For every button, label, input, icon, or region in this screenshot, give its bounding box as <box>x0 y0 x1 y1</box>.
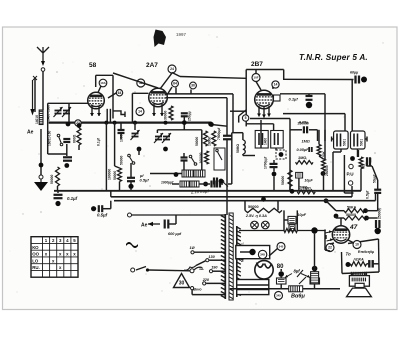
svg-text:ΟΟ: ΟΟ <box>32 252 39 257</box>
bus divider resistor <box>289 286 303 292</box>
resistor osc lower <box>205 151 209 164</box>
bus junction v1 <box>104 121 108 125</box>
svg-text:1400: 1400 <box>264 138 268 145</box>
mid cluster wires <box>131 123 139 184</box>
svg-text:47: 47 <box>349 224 358 231</box>
switch box dot <box>219 179 224 184</box>
svg-text:1400+1600: 1400+1600 <box>47 105 51 121</box>
PU box <box>344 150 358 193</box>
svg-text:30000: 30000 <box>164 110 168 120</box>
2A7 can box <box>132 93 148 122</box>
svg-text:50000: 50000 <box>120 155 124 165</box>
warning triangle 30 <box>174 274 190 288</box>
bus B+ long <box>54 190 361 192</box>
2B7 left diagonal <box>230 110 246 123</box>
svg-text:345: 345 <box>260 253 265 257</box>
1MO pu resistor <box>359 157 363 169</box>
svg-text:P.U: P.U <box>347 172 355 177</box>
60uuf coupling cap <box>356 76 368 84</box>
2B7 cathode arrow 3 <box>267 106 271 117</box>
svg-text:130: 130 <box>208 255 215 259</box>
selector blade <box>194 267 202 270</box>
tap circle 190 <box>209 270 212 273</box>
tap squiggle <box>184 266 196 271</box>
svg-text:Ae: Ae <box>27 130 34 136</box>
trimmer cap A1 <box>54 107 63 117</box>
avc vert res 1 <box>317 145 321 157</box>
tap circle Βινο <box>191 287 194 290</box>
IF can bottom wires <box>333 149 358 191</box>
pin 5 on 2B7 <box>242 115 248 121</box>
selector pivot <box>190 269 194 273</box>
tube 47 <box>332 226 349 243</box>
top coupling cap o <box>376 220 379 228</box>
pin 14 on 2B7 <box>272 81 279 88</box>
svg-text:10000: 10000 <box>208 137 212 146</box>
gang junction <box>66 122 71 127</box>
mains top wire <box>132 214 226 216</box>
svg-text:0.5µf: 0.5µf <box>140 178 150 183</box>
bias wires <box>314 234 316 272</box>
mains terminal <box>131 268 135 272</box>
bus link to IF2 <box>211 125 227 127</box>
10uF boxed cap c <box>289 225 295 231</box>
svg-text:10000: 10000 <box>120 132 124 142</box>
vertical from 60uuf to IF can <box>351 80 353 132</box>
svg-text:345: 345 <box>276 294 281 298</box>
50000 coupling res 2 <box>344 216 367 220</box>
res end dot r1 <box>363 208 368 213</box>
pin 10F on 2B7 <box>252 74 260 82</box>
grid coupling 58 to 2A7 <box>113 73 158 88</box>
circled pin 10 <box>353 241 361 249</box>
2B7 can box <box>246 70 284 127</box>
heater bus dot <box>311 227 317 233</box>
trimmer 10000 <box>131 130 140 140</box>
padder cap A <box>63 139 70 142</box>
pad bus wires <box>172 183 232 185</box>
avc vert res 2 <box>322 159 326 171</box>
pad dot <box>203 182 208 187</box>
header logo mark <box>154 30 167 48</box>
svg-text:80: 80 <box>277 264 284 270</box>
pin 14 on 2A7 <box>136 108 144 116</box>
tap wire 130 <box>196 260 225 265</box>
pad cap <box>212 181 215 188</box>
coupling cap 250000 <box>304 126 307 133</box>
2A7 cathode arrow 1 <box>152 104 156 116</box>
svg-text:10µF: 10µF <box>297 213 306 217</box>
hv dot <box>249 249 255 255</box>
svg-text:14: 14 <box>274 83 278 87</box>
1MO resistor h <box>296 161 314 165</box>
x mark on coil <box>33 76 37 80</box>
line terminal circle <box>128 213 132 217</box>
PU jack circle 1 <box>349 164 353 168</box>
antenna symbol <box>37 47 49 71</box>
HV winding box top <box>236 246 270 259</box>
1700 cap <box>270 164 278 167</box>
pad block 1 <box>180 181 189 187</box>
avc to bus wires <box>299 130 325 191</box>
osc coil <box>243 140 245 154</box>
svg-text:16051-160: 16051-160 <box>48 131 52 146</box>
svg-text:1ΜΩ: 1ΜΩ <box>299 186 307 190</box>
hv dot wire <box>240 251 250 253</box>
svg-text:0.05µF: 0.05µF <box>297 148 310 152</box>
0.1uf cap left <box>54 195 63 198</box>
circled 345a <box>277 243 285 251</box>
58 cathode arrow 2 <box>97 106 101 116</box>
svg-text:30: 30 <box>179 281 185 287</box>
bottom cap pair <box>214 178 217 185</box>
400ohm resistor <box>284 229 297 233</box>
vert wires under 58 <box>106 123 114 191</box>
50000 mid stub <box>289 187 291 191</box>
bus junction near 2A7 <box>182 120 187 125</box>
47 output box <box>342 239 380 274</box>
tube 58 <box>88 92 105 109</box>
10uF link wires <box>284 210 297 230</box>
svg-text:7500µµf: 7500µµf <box>217 127 221 140</box>
ground ant <box>34 179 48 191</box>
svg-text:LΟ: LΟ <box>32 258 39 263</box>
8uf arrows <box>285 274 310 278</box>
svg-text:14016: 14016 <box>35 115 39 124</box>
res下 wire <box>57 191 59 193</box>
junction dot <box>39 163 44 168</box>
filter cap 2 <box>310 271 320 284</box>
pad cap 2 <box>217 181 220 188</box>
svg-text:1700µµf: 1700µµf <box>264 156 268 169</box>
svg-text:10F: 10F <box>253 76 258 80</box>
rectifier 80 <box>255 261 273 279</box>
osc section wires <box>157 125 201 175</box>
svg-text:1997: 1997 <box>176 32 187 37</box>
band switch B <box>128 154 135 164</box>
band switch D <box>221 180 228 186</box>
output transformer <box>349 272 369 286</box>
bus3 corner <box>375 194 377 201</box>
svg-text:0.1µf: 0.1µf <box>67 196 78 201</box>
hv box lines <box>237 285 269 290</box>
svg-text:250000: 250000 <box>298 122 309 126</box>
1700 to bus <box>273 177 275 191</box>
tap wire 220 <box>206 282 225 284</box>
IF3 trimmer box 1 <box>255 131 268 149</box>
50uuf cap <box>367 157 370 166</box>
pin stems <box>176 88 191 94</box>
mains wire to selector <box>149 269 190 272</box>
band table <box>31 237 78 278</box>
svg-text:ΜΩ: ΜΩ <box>362 163 366 169</box>
cap121 stem <box>120 123 122 139</box>
svg-text:220: 220 <box>202 278 210 282</box>
heater bus <box>239 230 325 232</box>
small dot box <box>276 150 286 159</box>
can legs <box>107 109 110 123</box>
svg-text:RU.: RU. <box>32 265 40 270</box>
output cap <box>369 260 372 268</box>
resistor 30000 <box>169 106 173 120</box>
1MO inline resistor <box>297 190 315 194</box>
cap 0.05 <box>309 147 312 152</box>
circled pin 22 <box>326 244 334 252</box>
svg-text:Βινο: Βινο <box>193 287 202 291</box>
svg-text:50000: 50000 <box>248 205 259 209</box>
bus2 stub <box>351 193 353 197</box>
IF3 wires <box>261 120 276 172</box>
svg-text:1ΜΩ,: 1ΜΩ, <box>298 156 307 160</box>
svg-text:64: 64 <box>118 91 122 95</box>
cluster bottom wires <box>48 144 67 156</box>
2B7 grid wires <box>256 70 274 91</box>
tap wire 190 <box>213 270 225 272</box>
IF can feed wires <box>325 94 345 160</box>
osc top dot <box>208 122 213 127</box>
filter cap 1 <box>277 271 287 284</box>
tube 2B7 <box>255 90 274 109</box>
svg-text:µf: µf <box>139 174 144 178</box>
2B7 plate tab <box>274 95 281 101</box>
pin 64 on 2A7 <box>172 80 179 87</box>
0.5uf cap right <box>374 190 381 193</box>
svg-text:2B7: 2B7 <box>251 61 263 68</box>
osc cap <box>181 158 188 161</box>
cap down wire <box>183 116 185 129</box>
600ohm resistor <box>77 128 81 145</box>
svg-text:50000: 50000 <box>195 137 199 146</box>
tap circle 130 <box>206 259 209 262</box>
resistor 15000 osc <box>212 131 216 146</box>
speaker wires <box>352 273 366 276</box>
svg-text:10A: 10A <box>100 81 106 85</box>
58 grid cap wire <box>98 86 117 98</box>
tap block resistor 1 <box>182 170 193 177</box>
svg-text:0.5µf: 0.5µf <box>97 213 108 218</box>
wire cap to down <box>308 94 310 95</box>
svg-text:Σ.εππυµf: Σ.εππυµf <box>190 189 210 195</box>
pin 23 left <box>75 120 81 126</box>
osc trimmer 1 <box>154 133 163 143</box>
tap bus dot <box>174 172 179 177</box>
svg-text:ΚΟ: ΚΟ <box>32 245 39 250</box>
svg-text:250000: 250000 <box>325 165 329 176</box>
bus junction v3 <box>133 121 137 125</box>
pin 64 on 58 <box>116 90 122 96</box>
50000 coupling res 1 <box>344 209 365 213</box>
svg-text:345: 345 <box>279 245 284 249</box>
IF can 1 <box>334 131 349 149</box>
junction under 58 <box>137 147 142 152</box>
pin 10A on 58 <box>99 79 107 87</box>
bias dot <box>312 266 318 272</box>
svg-text:Επιθεηθμ: Επιθεηθμ <box>358 250 374 254</box>
2A7 plate wire 2 <box>166 97 227 99</box>
speaker <box>347 283 372 296</box>
trimmer cap A2 <box>62 107 71 117</box>
PU top dot <box>350 156 355 161</box>
bus dot left <box>290 189 295 194</box>
tap wire 110 <box>194 251 225 253</box>
svg-text:60µµ: 60µµ <box>350 71 358 75</box>
svg-text:1ΜΩ: 1ΜΩ <box>302 140 310 144</box>
svg-text:1Δ: 1Δ <box>199 267 204 271</box>
wire coil to junction <box>40 129 42 176</box>
svg-text:100000: 100000 <box>199 152 203 163</box>
0.5uf cap <box>99 205 102 212</box>
svg-text:22: 22 <box>328 246 332 250</box>
0.1uf dot <box>55 201 60 206</box>
50000 heater resistor <box>245 208 282 212</box>
tap wire bottom <box>192 290 225 295</box>
svg-text:2A7: 2A7 <box>146 62 158 69</box>
2B7 out wire <box>280 94 345 114</box>
cap bottom mid <box>127 178 135 181</box>
top wire 2B7 to antenna cap <box>283 78 354 80</box>
can outer ticks <box>332 137 367 142</box>
tube 2A7 <box>149 88 168 107</box>
svg-text:10µF: 10µF <box>304 179 313 183</box>
svg-text:50000: 50000 <box>113 171 117 180</box>
47 input arrows <box>325 230 333 241</box>
2A7 cathode arrow 2 <box>160 104 164 116</box>
2A7 plate wire 1 <box>165 94 233 133</box>
svg-text:5001: 5001 <box>359 139 363 146</box>
B minus bus <box>230 288 340 290</box>
IF can 2 <box>351 131 366 149</box>
bias resistor <box>311 272 319 284</box>
600 res top dot <box>77 123 82 128</box>
svg-text:50ΜΩ: 50ΜΩ <box>236 144 240 153</box>
svg-text:0.1µf: 0.1µf <box>97 137 101 146</box>
twisted pair <box>251 221 269 229</box>
svg-text:24: 24 <box>170 67 174 71</box>
band switch A <box>57 134 63 146</box>
tuning box left <box>48 103 88 154</box>
IF2 vertical pair <box>227 98 232 215</box>
50000 resistor mid <box>288 170 292 187</box>
cap stems <box>281 269 314 289</box>
svg-text:T.N.R. Super 5 A.: T.N.R. Super 5 A. <box>299 53 368 62</box>
1700 dot <box>272 172 277 177</box>
svg-text:600Ω: 600Ω <box>73 134 77 143</box>
circled 2A5 <box>258 250 266 258</box>
svg-text:14: 14 <box>138 110 142 114</box>
bus2 left corner <box>110 191 112 197</box>
circled 345b <box>275 292 283 300</box>
band switch C <box>189 155 197 165</box>
600uuf wire up <box>169 215 177 224</box>
osc junction <box>163 147 168 152</box>
mains switch <box>136 267 149 272</box>
coil wires <box>232 133 255 156</box>
svg-text:Το: Το <box>346 252 352 257</box>
2A7 grid top wire <box>160 73 172 95</box>
cap out wire <box>102 201 111 209</box>
resistor 100000 osc <box>204 131 208 146</box>
pad block 2 <box>190 181 199 187</box>
svg-text:0.5µf: 0.5µf <box>365 190 369 199</box>
antenna coil L <box>39 110 43 125</box>
600ohm wires <box>78 124 80 150</box>
svg-text:250µµ: 250µµ <box>188 111 192 121</box>
58 can box <box>96 75 113 118</box>
IF3 trimmer box 2 <box>271 131 284 149</box>
tap block resistor 2 <box>194 170 205 177</box>
cap dot left <box>91 206 96 211</box>
Ae arrow symbol <box>148 222 160 226</box>
avc junction dot <box>321 171 326 176</box>
cap at 121 <box>118 130 125 133</box>
bus 2 long <box>111 196 352 198</box>
svg-text:50000: 50000 <box>346 213 356 217</box>
pin 24 on 2A7 <box>168 65 176 73</box>
10uF boxed cap b <box>288 216 296 223</box>
res end dot r2 <box>364 216 369 221</box>
50000 resistor under58 <box>118 168 122 182</box>
terminal dot o <box>375 228 381 234</box>
svg-text:50000: 50000 <box>281 176 285 185</box>
pin B on 2A7 <box>137 79 145 87</box>
svg-text:64: 64 <box>173 82 177 86</box>
power transformer T1 <box>221 213 241 300</box>
coupling wires <box>326 201 378 218</box>
Ae arrow <box>30 80 34 116</box>
top grid wire to 2B7 <box>172 73 246 79</box>
bus 3 long <box>114 200 376 202</box>
svg-text:8µf: 8µf <box>294 269 301 274</box>
svg-text:100000: 100000 <box>108 169 112 180</box>
left col output wires <box>325 230 330 252</box>
345 wire <box>269 249 278 257</box>
output dot <box>346 262 351 267</box>
2B7 cathode arrow 1 <box>257 106 261 117</box>
switch box mid <box>214 148 225 170</box>
svg-text:5: 5 <box>245 116 247 120</box>
600uuf cap <box>165 220 169 229</box>
main cathode bus <box>49 121 212 123</box>
antenna lead wires <box>35 72 43 113</box>
bus3 dot <box>261 197 266 202</box>
svg-text:50ΚΑ: 50ΚΑ <box>347 206 357 210</box>
switch marks bl <box>297 270 306 284</box>
svg-text:Βαθμ: Βαθμ <box>291 294 305 300</box>
PU jack circle 2 <box>348 181 352 185</box>
terminal circle <box>39 175 43 179</box>
2B7 cathode link <box>246 124 273 131</box>
cap mid stub <box>130 188 132 191</box>
svg-text:5001: 5001 <box>342 139 346 146</box>
bus dot right <box>324 198 329 203</box>
osc trimmer 2 <box>162 133 171 143</box>
svg-text:Ae: Ae <box>141 223 148 229</box>
svg-text:10: 10 <box>355 243 359 247</box>
svg-text:0.1µf: 0.1µf <box>289 97 299 102</box>
res link <box>115 166 120 191</box>
osc cap wires <box>183 153 185 174</box>
bus junction v4 <box>164 121 168 125</box>
output resistor <box>350 262 366 266</box>
cap mid dot <box>128 184 133 189</box>
10uF boxed cap <box>296 172 303 178</box>
grid cap hook <box>113 111 125 117</box>
tap circle 1Ø <box>191 251 194 254</box>
47 wires <box>325 230 354 245</box>
wire res to bus <box>57 186 59 191</box>
IF2 series cap <box>223 136 232 140</box>
HV winding box bottom <box>237 280 269 295</box>
